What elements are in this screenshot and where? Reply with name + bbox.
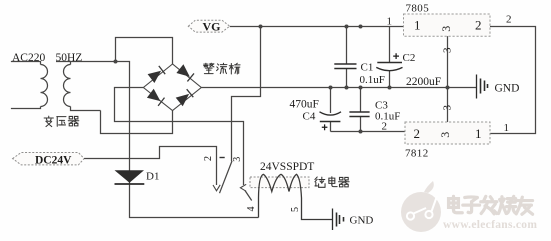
capacitor C3 xyxy=(360,88,362,132)
switch pin label 1 (dash) xyxy=(220,157,225,159)
label rectifier bridge 整流桥 xyxy=(204,63,214,73)
node: junction secondary top / rails xyxy=(114,60,118,64)
wire: transformer bottom to bridge bottom xyxy=(101,110,173,133)
relay coil winding and leads pin4/pin5 xyxy=(259,174,333,219)
wire: bridge left output to switch throw 3 xyxy=(115,88,244,186)
net tag DC24V xyxy=(13,153,85,165)
transformer T1 primary coil xyxy=(41,65,48,107)
bridge diode top-left xyxy=(148,71,162,83)
wire: secondary top lead (50HZ underline) xyxy=(56,62,116,65)
svg-text:C1: C1 xyxy=(361,62,374,74)
bridge rectifier diamond xyxy=(143,64,201,111)
plus sign C4 xyxy=(322,124,328,130)
bridge diode bottom-left xyxy=(147,89,161,101)
svg-text:3: 3 xyxy=(442,47,454,53)
watermark text dianzifashaoyou xyxy=(449,196,463,212)
wire: main left rail down to bottom rail xyxy=(116,62,259,218)
svg-text:1: 1 xyxy=(504,122,510,134)
ground symbol (main GND) xyxy=(477,75,488,99)
plus sign C2 xyxy=(393,53,399,59)
ground rail junction dots xyxy=(329,86,333,90)
svg-text:2: 2 xyxy=(506,14,512,26)
svg-text:3: 3 xyxy=(232,157,243,162)
regulator U1 7805 xyxy=(404,14,491,36)
svg-text:0.1uF: 0.1uF xyxy=(375,111,400,123)
wire: primary top lead (AC220 underline) xyxy=(11,62,41,65)
node: dot C3 on lower rail xyxy=(359,130,363,134)
svg-text:0.1uF: 0.1uF xyxy=(360,74,385,86)
relay coil box xyxy=(250,177,309,188)
svg-text:GND: GND xyxy=(495,83,520,95)
svg-text:3: 3 xyxy=(438,132,452,138)
svg-text:2200uF: 2200uF xyxy=(406,76,441,88)
svg-text:D1: D1 xyxy=(146,171,159,183)
label transformer 变压器 xyxy=(44,116,53,126)
svg-text:7812: 7812 xyxy=(405,148,429,160)
wire: VG rail to 7805 input xyxy=(230,26,404,28)
svg-text:5: 5 xyxy=(290,207,301,212)
diode D1 xyxy=(115,170,145,183)
wire: top loop to bridge top xyxy=(116,38,173,65)
svg-text:4: 4 xyxy=(246,207,257,212)
switch blade 2 xyxy=(245,191,252,201)
svg-text:DC24V: DC24V xyxy=(35,155,72,167)
capacitor C1 xyxy=(346,27,348,88)
svg-text:1: 1 xyxy=(475,126,482,141)
label relay 继电器 xyxy=(315,177,325,187)
wire: DC24V to switch pin 2 xyxy=(84,147,216,186)
wire: lower rail to 7812 input xyxy=(331,131,406,133)
net tag VG xyxy=(188,20,229,32)
svg-text:2: 2 xyxy=(203,156,214,161)
bridge diode bottom-right xyxy=(176,94,189,106)
svg-text:C2: C2 xyxy=(403,52,416,64)
watermark logo elecfans xyxy=(401,181,441,232)
switch contact chevron pin 2 xyxy=(213,185,220,191)
wire: secondary bottom lead xyxy=(71,107,101,111)
switch contact chevron pin 3 xyxy=(240,184,246,191)
regulator U2 7812 xyxy=(405,122,490,144)
svg-text:2: 2 xyxy=(382,121,388,133)
svg-text:24VSSPDT: 24VSSPDT xyxy=(260,161,314,173)
svg-text:1: 1 xyxy=(387,16,393,28)
capacitor C2 (polarized) xyxy=(389,27,391,88)
svg-text:VG: VG xyxy=(203,20,221,34)
wire: VG branch down to switch blade xyxy=(232,27,261,162)
svg-text:C4: C4 xyxy=(303,111,316,123)
svg-text:50HZ: 50HZ xyxy=(56,52,83,64)
svg-text:2: 2 xyxy=(475,18,482,33)
node: dot on VG rail xyxy=(359,25,363,29)
svg-text:470uF: 470uF xyxy=(290,99,319,111)
node: VG branch dot xyxy=(259,25,263,29)
wire: bridge right output / ground rail xyxy=(201,87,476,89)
wire: primary bottom lead xyxy=(11,107,41,109)
wire: 7805 output to 7812 pin1 xyxy=(490,27,536,134)
svg-text:2: 2 xyxy=(414,126,421,141)
svg-text:7805: 7805 xyxy=(406,3,430,15)
bridge diode top-right xyxy=(176,64,189,76)
svg-text:3: 3 xyxy=(439,26,453,32)
capacitor C4 (polarized) xyxy=(330,88,332,132)
node: dot on VG rail (C1 tap) xyxy=(345,25,349,29)
transformer T1 secondary coil xyxy=(64,65,71,107)
svg-text:www.elecfans.com: www.elecfans.com xyxy=(443,219,537,231)
wire: 7805 pin3 vertical xyxy=(447,36,449,122)
svg-text:GND: GND xyxy=(350,215,374,227)
ground symbol (relay pin 5) xyxy=(333,209,344,231)
svg-text:3: 3 xyxy=(442,105,454,111)
switch blade (common from VG) xyxy=(220,161,233,193)
svg-text:1: 1 xyxy=(414,18,421,33)
